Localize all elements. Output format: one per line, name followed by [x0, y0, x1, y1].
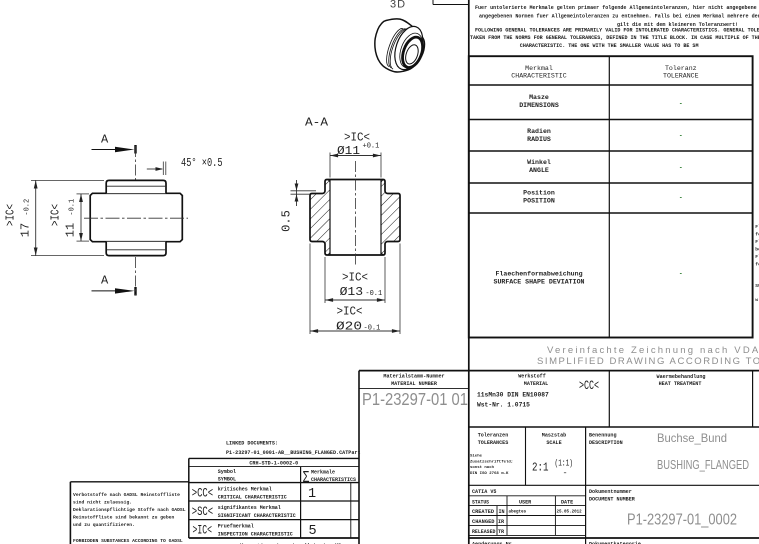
svg-text:Masze: Masze — [529, 94, 549, 101]
svg-text:CHARACTERISTIC. THE ONE WITH T: CHARACTERISTIC. THE ONE WITH THE SMALLER… — [520, 43, 699, 49]
svg-text:angegebenen Normen fuer Allgem: angegebenen Normen fuer Allgemeintoleran… — [479, 14, 759, 20]
svg-text:DOCUMENT NUMBER: DOCUMENT NUMBER — [589, 497, 636, 503]
svg-text:Benennung: Benennung — [589, 432, 617, 438]
svg-text:Werkstoff: Werkstoff — [518, 374, 546, 380]
svg-text:HEAT TREATMENT: HEAT TREATMENT — [659, 381, 702, 387]
svg-text:(1:1): (1:1) — [555, 459, 574, 469]
svg-text:IR: IR — [498, 519, 505, 525]
svg-text:Radien: Radien — [527, 128, 551, 135]
svg-text:>IC<: >IC< — [4, 204, 18, 226]
svg-text:fo: fo — [755, 262, 759, 268]
svg-text:Flaechenformabweichung: Flaechenformabweichung — [495, 271, 582, 278]
svg-text:A-A: A-A — [305, 116, 329, 130]
svg-text:Fuer untolerierte Merkmale gel: Fuer untolerierte Merkmale gelten primae… — [475, 5, 759, 11]
svg-text:Ø13: Ø13 — [340, 285, 364, 299]
svg-text:SIGNIFICANT CHARACTERISTIC: SIGNIFICANT CHARACTERISTIC — [218, 513, 296, 519]
svg-text:Merkmal: Merkmal — [525, 65, 553, 72]
svg-text:Wst-Nr. 1.0715: Wst-Nr. 1.0715 — [477, 401, 530, 408]
svg-text:P1-23297-01 01: P1-23297-01 01 — [362, 389, 468, 409]
svg-text:fo: fo — [755, 232, 759, 238]
svg-text:Waermebehandlung: Waermebehandlung — [657, 374, 706, 380]
svg-text:Σ: Σ — [303, 469, 310, 486]
svg-text:Winkel: Winkel — [527, 159, 551, 166]
svg-text:-: - — [680, 101, 683, 108]
svg-text:Toleranzen: Toleranzen — [478, 432, 509, 438]
svg-text:Materialstamm-Nummer: Materialstamm-Nummer — [383, 374, 444, 380]
svg-text:Toleranz: Toleranz — [665, 65, 697, 72]
svg-text:TOLERANCES: TOLERANCES — [478, 440, 509, 446]
svg-text:SYMBOL: SYMBOL — [218, 477, 236, 483]
svg-text:INSPECTION CHARACTERISTIC: INSPECTION CHARACTERISTIC — [218, 532, 293, 538]
svg-text:RELEASED: RELEASED — [472, 529, 496, 535]
svg-text:>CC<: >CC< — [579, 379, 599, 393]
svg-text:be: be — [755, 247, 759, 253]
svg-text:TAKEN FROM THE NORMS FOR GENER: TAKEN FROM THE NORMS FOR GENERAL TOLERAN… — [470, 35, 759, 41]
svg-text:A: A — [101, 274, 109, 288]
svg-text:-: - — [680, 195, 683, 202]
svg-text:USER: USER — [519, 499, 532, 505]
svg-text:kritisches Merkmal: kritisches Merkmal — [218, 487, 272, 493]
svg-text:CRITICAL CHARACTERISTIC: CRITICAL CHARACTERISTIC — [218, 495, 287, 501]
svg-text:Fl: Fl — [755, 224, 759, 230]
svg-text:-: - — [680, 133, 683, 140]
svg-text:5: 5 — [309, 524, 317, 539]
svg-text:sonst nach: sonst nach — [470, 465, 495, 470]
svg-text:CATIA V5: CATIA V5 — [472, 489, 496, 495]
svg-text:DESCRIPTION: DESCRIPTION — [589, 440, 623, 446]
svg-text:-0.1: -0.1 — [364, 325, 381, 333]
svg-text:MATERIAL: MATERIAL — [524, 381, 548, 387]
svg-text:Maszstab: Maszstab — [542, 432, 566, 438]
svg-text:LINKED DOCUMENTS:: LINKED DOCUMENTS: — [226, 440, 278, 446]
svg-text:CREATED: CREATED — [472, 509, 494, 515]
svg-text:TOLERANCE: TOLERANCE — [663, 72, 699, 79]
svg-text:Buchse_Bund: Buchse_Bund — [657, 431, 727, 445]
svg-text:+0.1: +0.1 — [363, 143, 380, 151]
svg-text:25.05.2012: 25.05.2012 — [557, 510, 583, 514]
svg-text:>SC<: >SC< — [192, 505, 214, 519]
svg-text:SIMPLIFIED DRAWING ACCORDING T: SIMPLIFIED DRAWING ACCORDING TO VDA — [537, 356, 759, 367]
svg-text:Merkmale: Merkmale — [311, 470, 335, 476]
svg-text:Reinstoffliste sind bekannt zu: Reinstoffliste sind bekannt zu geben — [73, 515, 174, 521]
svg-text:CHANGED: CHANGED — [472, 519, 495, 525]
svg-text:STATUS: STATUS — [472, 499, 489, 505]
svg-text:17 -0.2: 17 -0.2 — [19, 199, 33, 237]
svg-text:Symbol: Symbol — [218, 469, 236, 475]
svg-text:11sMn30 DIN EN10087: 11sMn30 DIN EN10087 — [477, 391, 549, 398]
svg-text:abegtes: abegtes — [509, 510, 527, 515]
svg-text:>IC<: >IC< — [337, 305, 363, 319]
svg-text:DATE: DATE — [561, 499, 573, 505]
svg-text:Fl: Fl — [755, 254, 759, 260]
svg-text:P1-23297-01_0001-AB__BUSHING_F: P1-23297-01_0001-AB__BUSHING_FLANGED.CAT… — [226, 450, 361, 456]
svg-text:w.: w. — [755, 298, 759, 303]
svg-text:>IC<: >IC< — [342, 271, 368, 285]
svg-text:SCALE: SCALE — [546, 440, 561, 446]
svg-text:CHARACTERISTIC: CHARACTERISTIC — [511, 72, 566, 79]
svg-text:signifikantes Merkmal: signifikantes Merkmal — [218, 505, 281, 511]
svg-text:Deklarationspflichtige Stoffe: Deklarationspflichtige Stoffe nach GADSL — [73, 507, 186, 513]
svg-text:-: - — [563, 468, 568, 478]
svg-text:2:1: 2:1 — [532, 461, 549, 475]
svg-text:RADIUS: RADIUS — [527, 136, 551, 143]
svg-text:3D: 3D — [390, 0, 406, 11]
svg-text:sind nicht zulaessig.: sind nicht zulaessig. — [73, 499, 132, 505]
svg-text:Dokumentnummer: Dokumentnummer — [589, 489, 632, 495]
svg-text:BUSHING_FLANGED: BUSHING_FLANGED — [657, 457, 749, 472]
svg-text:Ø11: Ø11 — [337, 144, 360, 158]
svg-text:SURFACE SHAPE DEVIATION: SURFACE SHAPE DEVIATION — [493, 279, 584, 286]
svg-text:>CC<: >CC< — [192, 487, 214, 501]
svg-text:Position: Position — [523, 190, 555, 197]
svg-text:FORBIDDEN SUBSTANCES ACCORDING: FORBIDDEN SUBSTANCES ACCORDING TO GADSL — [73, 538, 183, 544]
svg-text:Fl: Fl — [755, 239, 759, 245]
svg-text:-0.1: -0.1 — [365, 290, 382, 298]
svg-text:Zusatzschriftfeld;: Zusatzschriftfeld; — [470, 459, 513, 464]
svg-text:A: A — [101, 133, 109, 147]
svg-text:IN: IN — [499, 509, 505, 515]
svg-text:und zu quantifizieren.: und zu quantifizieren. — [73, 522, 135, 528]
svg-text:0.5: 0.5 — [280, 210, 294, 232]
svg-text:1: 1 — [308, 487, 316, 502]
svg-text:Ø20: Ø20 — [336, 320, 362, 334]
svg-text:FOLLOWING GENERAL TOLERANCES A: FOLLOWING GENERAL TOLERANCES ARE PRIMARI… — [475, 28, 759, 34]
svg-text:P1-23297-01_0002: P1-23297-01_0002 — [627, 512, 737, 529]
svg-text:POSITION: POSITION — [523, 197, 555, 204]
svg-text:-: - — [680, 271, 683, 278]
svg-text:DIN ISO 2768 m-K: DIN ISO 2768 m-K — [470, 472, 509, 476]
svg-text:11 -0.1: 11 -0.1 — [63, 199, 77, 237]
svg-text:MATERIAL NUMBER: MATERIAL NUMBER — [391, 381, 438, 387]
svg-text:45° ×0.5: 45° ×0.5 — [181, 156, 223, 170]
svg-text:Pruefmerkmal: Pruefmerkmal — [218, 524, 254, 530]
svg-text:DIMENSIONS: DIMENSIONS — [519, 102, 559, 109]
svg-text:CHARACTERISTICS: CHARACTERISTICS — [311, 477, 356, 483]
svg-text:CRH-STD-1-0002-0: CRH-STD-1-0002-0 — [249, 461, 298, 467]
svg-text:-: - — [680, 165, 683, 172]
svg-text:SU: SU — [755, 283, 759, 289]
svg-text:ANGLE: ANGLE — [529, 167, 549, 174]
svg-text:Verbotstoffe nach GADSL Reinst: Verbotstoffe nach GADSL Reinstoffliste — [73, 492, 180, 498]
svg-text:Siehe: Siehe — [470, 454, 483, 459]
svg-text:>IC<: >IC< — [193, 523, 213, 537]
svg-text:Vereinfachte Zeichnung nach VD: Vereinfachte Zeichnung nach VDA — [547, 345, 759, 356]
svg-text:>IC<: >IC< — [49, 204, 63, 226]
svg-text:TR: TR — [498, 529, 505, 535]
